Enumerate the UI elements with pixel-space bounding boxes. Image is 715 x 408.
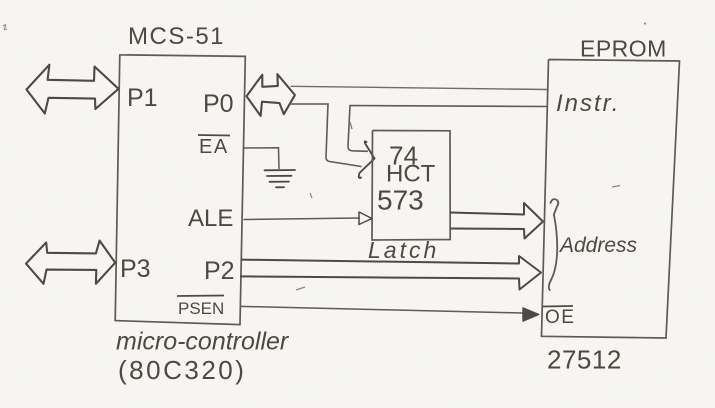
label Latch: [368, 237, 439, 263]
pin label PSEN (active low): [177, 296, 224, 319]
wire PSEN to OE: [240, 306, 523, 313]
svg-text:MCS-51: MCS-51: [128, 23, 225, 50]
label OE (active low): [543, 306, 575, 328]
svg-text:Instr.: Instr.: [556, 90, 620, 117]
svg-text:P1: P1: [127, 84, 158, 112]
label MCS-51: [128, 23, 225, 50]
faint tick below P0 bus: [310, 193, 312, 198]
svg-text:PSEN: PSEN: [178, 299, 224, 318]
address bus hollow arrow latch to EPROM: [450, 203, 543, 239]
arrowhead ALE into latch: [359, 212, 372, 225]
svg-text:P3: P3: [120, 255, 151, 283]
ground symbol: [265, 170, 296, 187]
label EPROM: [580, 36, 667, 62]
svg-text:Address: Address: [558, 234, 638, 257]
wire: P0 bus segment into latch (outer L): [289, 104, 362, 167]
svg-text:Latch: Latch: [368, 237, 439, 263]
EPROM box U3: [542, 60, 680, 339]
label micro-controller: [116, 328, 290, 356]
pin label P3: [120, 255, 151, 283]
label Instr.: [556, 90, 620, 117]
svg-text:(80C320): (80C320): [118, 355, 246, 385]
microcontroller box U1: [115, 55, 245, 325]
wire: bus segment latch corner to EPROM (inner L): [348, 106, 547, 152]
svg-text:EPROM: EPROM: [580, 36, 667, 62]
svg-text:EA: EA: [199, 136, 229, 158]
speck near EPROM label: [644, 22, 646, 24]
pin label P2: [204, 257, 235, 285]
stray pencil smudge top-left: [3, 25, 7, 30]
pin label P1: [127, 84, 158, 112]
svg-text:P0: P0: [203, 90, 234, 118]
svg-text:P2: P2: [204, 257, 235, 285]
svg-text:27512: 27512: [547, 345, 622, 375]
small tick above latch: [350, 122, 352, 129]
pin label EA (active low): [198, 135, 230, 158]
svg-text:HCT: HCT: [386, 161, 436, 188]
label 27512: [547, 345, 622, 375]
faint dash left of P2 arrow head: [296, 287, 305, 290]
bidirectional bus arrow at P1: [27, 65, 119, 114]
label 573: [377, 185, 424, 216]
label 74: [389, 141, 418, 171]
wire: upper data bus line P0 to EPROM: [291, 86, 548, 89]
label HCT: [386, 161, 436, 188]
label Address: [558, 234, 638, 257]
latch U2 box: [372, 131, 450, 241]
bidirectional bus arrow at P0: [247, 74, 295, 116]
address bus hollow arrow P2 to EPROM: [240, 256, 541, 290]
pin label ALE: [188, 205, 233, 232]
svg-text:ALE: ALE: [188, 205, 233, 232]
wire ALE to latch: [244, 218, 361, 220]
arrowhead PSEN into OE: [523, 308, 539, 321]
label (80C320): [118, 355, 246, 385]
arrowhead into latch input: [359, 141, 375, 178]
wire EA to ground: [244, 148, 279, 169]
svg-text:OE: OE: [545, 307, 575, 328]
pin label P0: [203, 90, 234, 118]
svg-text:micro-controller: micro-controller: [116, 328, 290, 356]
svg-text:573: 573: [377, 185, 424, 216]
brace grouping address lines: [549, 199, 558, 290]
bidirectional bus arrow at P3: [26, 241, 115, 284]
faint dash above PSEN wire right: [612, 186, 620, 188]
